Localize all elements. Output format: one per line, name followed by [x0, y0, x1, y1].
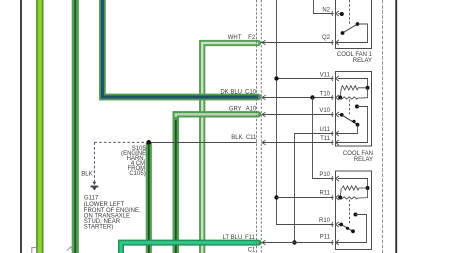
- S105 splice dashed lead: [94, 141, 146, 143]
- relay3 internal dashed line: [349, 200, 351, 224]
- svg-text:F11: F11: [245, 235, 256, 241]
- node: junction dot R11 tee: [274, 195, 278, 199]
- relay2 pin T10 symbol: [332, 95, 339, 100]
- relay2 coil left lead down: [340, 88, 341, 98]
- wire: V10/GRY thin line: [262, 114, 334, 116]
- relay3 pin R11 symbol: [332, 195, 339, 200]
- relay3 resistor zigzag (parallel): [340, 188, 367, 199]
- svg-text:R11: R11: [319, 191, 330, 197]
- relay3 coil zigzag: [342, 186, 367, 190]
- relay2 pin V11 symbol: [332, 76, 339, 81]
- node: relay2 fixed contact dot: [355, 105, 359, 109]
- relay2 V11 wire to coil top right: [338, 79, 368, 88]
- wire: long vertical x=275.8 from top to R10 elbow: [277, 0, 334, 225]
- relay3 pin R10 symbol: [332, 222, 339, 227]
- relay1 internal dashed line: [349, 0, 351, 25]
- svg-text:C11: C11: [246, 135, 257, 141]
- svg-text:DK BLU: DK BLU: [220, 89, 242, 95]
- svg-text:C10: C10: [245, 89, 257, 95]
- relay2 box: [336, 72, 372, 147]
- wire: V11 line: [277, 78, 334, 80]
- svg-text:BLK: BLK: [231, 135, 242, 141]
- relay3 box: [336, 171, 372, 250]
- wire: T10/DKBLU thin line: [262, 97, 334, 99]
- wire: GRY vertical at x=175.8 with elbow to right at y=114.3: [176, 111, 258, 253]
- dashed connector line pair at x=256.5 and x=261.3: [256, 0, 258, 253]
- svg-text:F2: F2: [248, 35, 256, 41]
- svg-text:STARTER): STARTER): [84, 224, 113, 230]
- relay2 internal dashed line: [349, 100, 351, 115]
- node: relay3 R11 dot: [338, 196, 342, 200]
- svg-text:C105): C105): [129, 171, 145, 177]
- svg-text:C1: C1: [248, 248, 256, 253]
- wire: vertical x=312.8 from T10 dot to P10 elbow: [313, 98, 334, 179]
- relay3 pin P10 symbol: [332, 176, 339, 181]
- svg-text:RELAY: RELAY: [353, 58, 372, 64]
- svg-text:LT BLU: LT BLU: [223, 235, 243, 241]
- label S105 (ENGINE HARN, 4 CM FROM C105): [121, 146, 146, 177]
- svg-text:R10: R10: [319, 218, 331, 224]
- wire: LT BLU teal horizontal at y=242.8 with elbow down at x=121: [121, 243, 259, 253]
- svg-text:GRY: GRY: [229, 107, 242, 113]
- wire: N2 feed vertical from top: [314, 0, 334, 14]
- relay1 contact wire to Q2: [336, 24, 368, 43]
- connector arrow F2: [262, 40, 266, 44]
- wire: P11/LTBLU thin line: [262, 242, 334, 244]
- svg-text:V10: V10: [319, 108, 330, 114]
- relay3 pin P11 symbol: [332, 240, 339, 245]
- svg-text:U11: U11: [319, 127, 330, 133]
- relay1 pin Q2 symbol: [332, 40, 339, 45]
- connector terminal square at bottom of LT GRN wire: [32, 248, 38, 253]
- relay2 arm to U11 wire: [336, 125, 358, 134]
- relay2 pin V10 symbol: [332, 112, 339, 117]
- svg-text:T11: T11: [320, 136, 331, 142]
- relay2 pin T11 symbol: [332, 140, 339, 145]
- node: junction dot T10 line: [310, 95, 314, 99]
- wire: S105 DK GRN vertical at x=148.8: [146, 143, 152, 253]
- relay3 P10 wire to coil right: [338, 179, 368, 189]
- node: relay3 coil right dot: [366, 186, 370, 190]
- svg-text:A10: A10: [246, 107, 257, 113]
- svg-text:G117: G117: [84, 195, 99, 201]
- relay2 coil zigzag: [342, 86, 368, 90]
- dashed boundary line at x=382: [382, 0, 384, 253]
- relay3 switch arm: [341, 225, 353, 232]
- node: relay2 coil right dot: [366, 86, 370, 90]
- wire: LT GRN vertical at x=39: [36, 0, 43, 253]
- node: junction dot on P11 line: [292, 240, 296, 244]
- svg-text:WHT: WHT: [228, 35, 242, 41]
- node: relay2 T10 dot: [338, 96, 342, 100]
- relay1 N2 stub: [338, 13, 342, 15]
- ground G117 symbol: [91, 186, 99, 188]
- relay2 resistor zigzag (parallel): [340, 88, 367, 99]
- solid boundary line at x=398.5: [395, 0, 397, 253]
- svg-text:V11: V11: [320, 72, 331, 78]
- relay3 coil left lead down: [340, 188, 341, 198]
- svg-text:N2: N2: [322, 8, 330, 14]
- svg-text:T10: T10: [320, 92, 331, 98]
- relay3 fixed contact wire to P11: [336, 215, 367, 243]
- connector arrow A10: [262, 112, 266, 116]
- svg-text:RELAY: RELAY: [354, 157, 373, 163]
- relay1 switch arm: [343, 24, 358, 33]
- arrowhead at end of ground lead: [93, 182, 97, 185]
- svg-text:P11: P11: [320, 234, 331, 240]
- wire: DK GRN vertical at x=75.5: [72, 0, 79, 253]
- svg-text:Q2: Q2: [322, 35, 331, 41]
- connector arrow C10: [262, 95, 266, 99]
- node S105 splice dot: [146, 140, 151, 145]
- wire: Q2/WHT thin line from connector to relay1: [262, 42, 334, 44]
- wire: T11/BLK thin line: [262, 142, 334, 144]
- connector arrow C11: [262, 140, 266, 144]
- connector mark at bottom of DK GRN wire: [67, 247, 73, 250]
- relay1 pin N2 symbol: [332, 11, 339, 16]
- relay2 fixed contact wire to T11: [336, 107, 368, 143]
- svg-text:BLK: BLK: [81, 171, 92, 177]
- label G117 (LOWER LEFT FRONT OF ENGINE, ON TRANSAXLE STUD, NEAR STARTER): [84, 195, 141, 230]
- connector arrow F11/C1: [262, 240, 266, 244]
- wire: U11 line with vertical down to P11: [295, 134, 334, 243]
- svg-text:P10: P10: [319, 172, 330, 178]
- relay2 pin U11 symbol: [332, 131, 339, 136]
- relay3 R10 stub and pivot: [338, 224, 341, 226]
- wire: R11 line: [277, 197, 334, 199]
- relay2 switch arm: [342, 115, 358, 125]
- wire: left dark vertical line: [20, 0, 22, 253]
- relay1 box: [336, 0, 372, 49]
- node: relay1 N2 dot: [340, 12, 344, 16]
- wire: WHT vertical at x=202.2 with elbow to right at y=43: [202, 43, 258, 253]
- node: relay3 fixed contact dot: [354, 213, 358, 217]
- wire: BLK thin line from S105 to C11 connector: [151, 142, 257, 144]
- wire: DK BLU vertical at x=102.4 with elbow to right at y=97: [102, 0, 258, 97]
- relay2 V10 stub and pivot: [338, 114, 342, 116]
- node: junction dot V11: [274, 76, 278, 80]
